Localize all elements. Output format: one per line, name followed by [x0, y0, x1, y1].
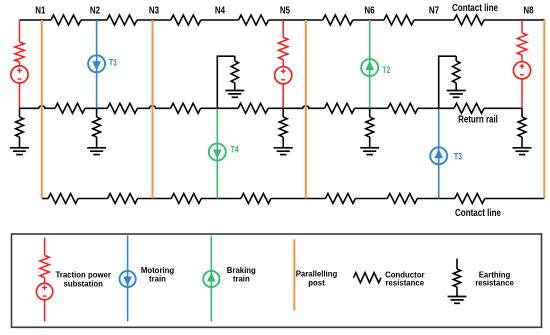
- earthing resistance E4 wire2: [369, 137, 371, 147]
- legend substation circle: [36, 283, 52, 299]
- earthing stub G-N7 wire down: [455, 56, 457, 61]
- legend braking train wire: [210, 236, 212, 322]
- svg-text:Contact line: Contact line: [455, 208, 501, 219]
- wire return rail seg8: [484, 107, 522, 109]
- train T2 current source circle: [361, 59, 378, 76]
- svg-text:Parallelling: Parallelling: [296, 270, 338, 279]
- conductor resistance Rr6 (return rail): [388, 103, 418, 113]
- train T3 current source circle: [430, 147, 447, 164]
- svg-text:N1: N1: [35, 5, 46, 16]
- wire top contact line seg4: [201, 19, 239, 21]
- traction power substation S1 wire upper: [19, 20, 21, 42]
- svg-text:N5: N5: [280, 5, 291, 16]
- conductor resistance Rr4 (return rail): [238, 103, 268, 113]
- traction power substation S2 wire mid: [282, 60, 284, 67]
- train T1 wire through circle: [96, 55, 98, 72]
- earthing stub G-N7 horizontal wire: [438, 55, 456, 57]
- legend ground symbol: [448, 296, 467, 298]
- wire top contact line seg7: [414, 19, 454, 21]
- earthing resistance E1 wire2: [19, 137, 21, 147]
- wire return rail seg5 (hop over post): [268, 106, 324, 108]
- earthing resistance G-N4 resistor: [231, 61, 238, 83]
- svg-text:T1: T1: [109, 58, 117, 68]
- conductor resistance Rb3 (bottom line): [171, 194, 201, 204]
- traction power substation S2 resistor: [278, 38, 288, 60]
- legend substation resistor: [40, 256, 50, 278]
- conductor resistance Rr7 (return rail): [454, 103, 484, 113]
- parallelling post P4: [543, 20, 545, 199]
- svg-text:N3: N3: [149, 5, 160, 16]
- legend parallelling post wire: [293, 239, 295, 310]
- wire top contact line seg8: [484, 19, 545, 21]
- traction power substation S2 wire upper: [282, 20, 284, 38]
- ground symbol E2: [87, 147, 106, 149]
- conductor resistance Rr3 (return rail): [171, 103, 201, 113]
- svg-text:N2: N2: [90, 5, 101, 16]
- ground symbol G-N4: [225, 90, 244, 92]
- traction power substation S2 voltage source circle: [275, 67, 292, 84]
- train T3 arrow: [434, 149, 443, 159]
- conductor resistance Rt7 (top line): [454, 15, 484, 25]
- train T2 arrow: [365, 61, 374, 71]
- legend motoring train circle: [120, 271, 136, 287]
- legend conductor resistance resistor: [354, 273, 382, 283]
- wire return rail seg6: [355, 107, 388, 109]
- train T4 current source circle: [209, 144, 226, 161]
- earthing stub G-N4 vertical wire: [216, 56, 218, 108]
- svg-text:substation: substation: [63, 280, 103, 289]
- parallelling post P3: [305, 20, 307, 199]
- conductor resistance Rt1 (top line): [51, 15, 81, 25]
- train T3 wire lower: [438, 164, 440, 198]
- legend substation minus sign: [43, 295, 47, 297]
- earthing resistance G-N7 resistor: [453, 61, 460, 83]
- wire bottom contact line seg6: [355, 198, 387, 200]
- train T2 wire lower: [369, 76, 371, 108]
- conductor resistance Rb6 (bottom line): [387, 194, 417, 204]
- traction power substation S3 wire mid: [521, 55, 523, 62]
- wire return rail seg2: [85, 107, 107, 109]
- earthing resistance G-N7 wire2: [455, 83, 457, 90]
- traction power substation S1 plus sign: [17, 70, 22, 72]
- earthing resistance E1 wire: [19, 108, 21, 117]
- conductor resistance Rr1 (return rail): [55, 103, 85, 113]
- train T2 wire through circle: [369, 59, 371, 76]
- svg-text:T4: T4: [231, 145, 240, 155]
- earthing resistance E2 resistor: [93, 117, 101, 137]
- legend earthing wire upper: [456, 259, 458, 269]
- wire return rail seg7: [418, 107, 454, 109]
- parallelling post P1: [41, 20, 43, 199]
- legend substation wire upper: [44, 238, 46, 256]
- traction power substation S1 wire mid: [19, 62, 21, 66]
- wire bottom contact line seg5: [271, 198, 326, 200]
- conductor resistance Rb4 (bottom line): [241, 194, 271, 204]
- traction power substation S3 minus sign: [520, 74, 524, 76]
- earthing resistance E4 resistor: [366, 117, 374, 137]
- train T1 arrow: [92, 61, 101, 71]
- train T1 wire upper: [96, 20, 98, 55]
- svg-text:N8: N8: [523, 5, 534, 16]
- svg-text:Contact line: Contact line: [452, 3, 498, 14]
- wire top contact line seg1: [20, 19, 52, 21]
- wire bottom contact line seg7: [417, 198, 455, 200]
- legend braking train circle: [203, 271, 219, 287]
- legend braking train arrow: [207, 272, 216, 282]
- train T4 wire upper: [216, 108, 218, 143]
- conductor resistance Rb7 (bottom line): [455, 194, 485, 204]
- traction power substation S3 resistor: [517, 33, 527, 55]
- traction power substation S1 resistor: [15, 42, 25, 62]
- svg-text:Traction power: Traction power: [55, 271, 110, 280]
- wire return rail seg1 (hop over post): [20, 106, 56, 108]
- traction power substation S1 voltage source circle: [11, 66, 28, 83]
- earthing resistance E5 wire2: [521, 137, 523, 147]
- ground symbol E1: [10, 147, 29, 149]
- legend substation wire lower: [44, 300, 46, 322]
- svg-text:T2: T2: [382, 65, 390, 75]
- svg-text:train: train: [149, 274, 166, 283]
- earthing resistance E4 wire: [369, 108, 371, 117]
- svg-text:resistance: resistance: [386, 279, 425, 288]
- svg-text:N7: N7: [429, 5, 440, 16]
- traction power substation S3 wire lower: [521, 79, 523, 108]
- train T3 wire through circle: [438, 147, 440, 164]
- earthing resistance E3 wire2: [282, 137, 284, 147]
- wire bottom contact line seg3: [138, 198, 172, 200]
- conductor resistance Rt3 (top line): [171, 15, 201, 25]
- conductor resistance Rb1 (bottom line): [48, 194, 78, 204]
- traction power substation S2 minus sign: [281, 79, 285, 81]
- traction power substation S1 minus sign: [18, 78, 22, 80]
- train T4 wire lower: [216, 161, 218, 199]
- train T4 wire through circle: [216, 143, 218, 160]
- earthing stub G-N4 horizontal wire: [217, 55, 235, 57]
- ground symbol E5: [513, 147, 532, 149]
- legend motoring train wire: [127, 236, 129, 322]
- wire bottom contact line seg2: [78, 198, 108, 200]
- parallelling post P2: [152, 20, 154, 199]
- traction power substation S3 voltage source circle: [513, 62, 530, 79]
- train T1 wire lower: [96, 72, 98, 108]
- earthing resistance E3 resistor: [279, 117, 287, 137]
- svg-text:N4: N4: [215, 5, 226, 16]
- traction power substation S2 plus sign: [281, 70, 286, 72]
- conductor resistance Rb2 (bottom line): [108, 194, 138, 204]
- conductor resistance Rt5 (top line): [323, 15, 353, 25]
- earthing resistance G-N4 wire2: [234, 83, 236, 90]
- train T2 wire upper: [369, 20, 371, 59]
- ground symbol G-N7: [447, 90, 466, 92]
- traction power substation S3 plus sign: [520, 65, 525, 67]
- svg-text:N6: N6: [364, 5, 375, 16]
- traction power substation S1 wire lower: [19, 83, 21, 108]
- train T4 arrow: [213, 150, 222, 160]
- conductor resistance Rr2 (return rail): [107, 103, 137, 113]
- conductor resistance Rr5 (return rail): [325, 103, 355, 113]
- earthing resistance E5 resistor: [518, 117, 526, 137]
- earthing resistance E2 wire2: [96, 137, 98, 147]
- train T3 wire upper: [438, 108, 440, 147]
- earthing resistance E5 wire: [521, 108, 523, 117]
- earthing resistance E2 wire: [96, 108, 98, 117]
- wire bottom contact line seg4: [201, 198, 241, 200]
- svg-text:T3: T3: [454, 151, 462, 161]
- traction power substation S3 wire upper: [521, 20, 523, 33]
- conductor resistance Rt2 (top line): [107, 15, 137, 25]
- ground symbol E4: [360, 147, 379, 149]
- legend earthing resistor: [453, 269, 460, 287]
- wire top contact line seg2: [81, 19, 107, 21]
- wire top contact line seg6: [353, 19, 384, 21]
- svg-text:resistance: resistance: [475, 279, 514, 288]
- wire bottom contact line seg8: [485, 198, 545, 200]
- wire return rail seg3 (hop over post): [137, 106, 170, 108]
- svg-text:Return rail: Return rail: [458, 115, 498, 126]
- svg-text:post: post: [308, 279, 325, 288]
- earthing resistance E1 resistor: [16, 117, 24, 137]
- earthing resistance E3 wire: [282, 108, 284, 117]
- legend substation plus sign: [42, 287, 47, 289]
- legend motoring train arrow: [123, 277, 132, 287]
- wire bottom contact line seg1: [42, 198, 48, 200]
- legend earthing wire lower: [456, 287, 458, 296]
- traction power substation S2 wire lower: [282, 84, 284, 108]
- legend substation wire mid: [44, 278, 46, 284]
- conductor resistance Rt4 (top line): [239, 15, 269, 25]
- wire top contact line seg5: [269, 19, 323, 21]
- legend box: [12, 234, 542, 327]
- conductor resistance Rb5 (bottom line): [325, 194, 355, 204]
- train T1 current source circle: [88, 55, 105, 72]
- svg-text:train: train: [233, 274, 250, 283]
- conductor resistance Rt6 (top line): [384, 15, 414, 25]
- ground symbol E3: [274, 147, 293, 149]
- wire return rail seg4: [201, 107, 239, 109]
- earthing stub G-N7 vertical wire: [438, 56, 440, 108]
- earthing stub G-N4 wire down: [234, 56, 236, 61]
- wire top contact line seg3: [137, 19, 171, 21]
